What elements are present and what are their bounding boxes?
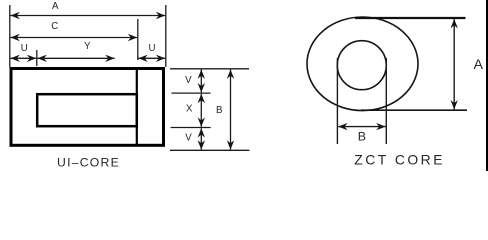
dim B left block [230, 70, 232, 150]
ext line window top right [172, 92, 211, 94]
ZCT outer ring [307, 17, 418, 111]
dim V top [200, 70, 202, 93]
ext line B right [385, 58, 387, 144]
svg-text:X: X [186, 104, 193, 115]
svg-text:ZCT CORE: ZCT CORE [354, 152, 445, 168]
ZCT inner hole [337, 41, 386, 90]
svg-text:V: V [185, 133, 192, 144]
UI core divider [136, 69, 138, 146]
tick U/Y [36, 50, 38, 66]
ext line bottom right [170, 149, 249, 151]
svg-text:C: C [51, 21, 58, 32]
dim B toroid [338, 126, 385, 128]
UI core window rect [37, 94, 137, 126]
dim A [11, 15, 166, 17]
dim U left [11, 57, 37, 59]
svg-text:B: B [216, 105, 222, 116]
svg-text:B: B [358, 130, 366, 144]
dim X [200, 94, 202, 127]
page border right [486, 0, 488, 171]
UI core outer rect [11, 69, 164, 146]
ext line center C/U [137, 19, 139, 60]
ext line B left [336, 58, 338, 144]
dim U right [138, 57, 165, 59]
ext line V top [170, 68, 249, 70]
ext line right [165, 5, 167, 67]
top tangent line [355, 17, 466, 19]
dim A vertical [453, 19, 455, 109]
ext line window bottom right [171, 127, 211, 129]
ext line left [9, 5, 11, 67]
svg-text:V: V [185, 75, 192, 86]
svg-text:A: A [52, 1, 59, 12]
dim C [11, 37, 138, 39]
svg-text:U: U [149, 43, 156, 54]
svg-text:UI–CORE: UI–CORE [57, 156, 120, 170]
svg-text:Y: Y [84, 41, 91, 52]
dim V bottom [200, 128, 202, 149]
svg-text:A: A [473, 57, 483, 73]
dim Y [38, 57, 115, 59]
svg-text:U: U [21, 43, 28, 54]
bottom tangent line [361, 109, 467, 111]
